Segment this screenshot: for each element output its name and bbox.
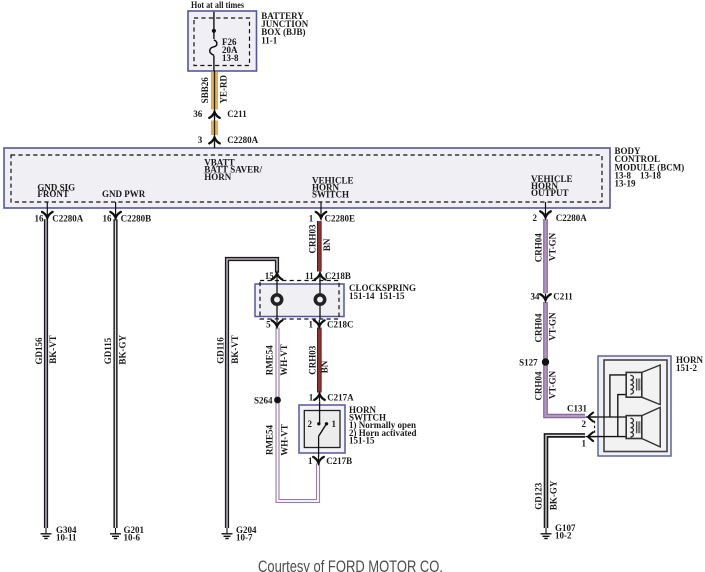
svg-text:YE-RD: YE-RD <box>219 75 229 104</box>
svg-text:GD116: GD116 <box>216 337 226 364</box>
svg-text:151-15: 151-15 <box>349 436 375 446</box>
svg-text:151-14 151-15: 151-14 151-15 <box>349 291 405 301</box>
svg-text:CRH03: CRH03 <box>307 345 317 374</box>
svg-text:13-19: 13-19 <box>615 179 636 189</box>
svg-text:2: 2 <box>582 419 587 429</box>
svg-text:3: 3 <box>198 135 203 145</box>
svg-text:WH-VT: WH-VT <box>280 424 290 456</box>
svg-text:BK-GY: BK-GY <box>117 335 127 365</box>
svg-text:BK-GY: BK-GY <box>548 480 558 510</box>
svg-text:16: 16 <box>103 214 113 224</box>
svg-text:1: 1 <box>309 214 314 224</box>
svg-text:34: 34 <box>531 292 541 302</box>
svg-text:GD123: GD123 <box>534 482 544 510</box>
svg-text:S264: S264 <box>254 395 273 405</box>
svg-text:BN: BN <box>322 238 332 251</box>
svg-text:C2280B: C2280B <box>121 214 152 224</box>
svg-text:CRH03: CRH03 <box>307 224 317 253</box>
svg-text:C2280E: C2280E <box>325 214 356 224</box>
svg-text:GD156: GD156 <box>34 337 44 365</box>
svg-text:S127: S127 <box>519 357 538 367</box>
svg-text:VT-GN: VT-GN <box>548 312 558 341</box>
svg-text:13-18: 13-18 <box>640 171 661 181</box>
svg-text:OUTPUT: OUTPUT <box>531 188 569 198</box>
svg-text:2: 2 <box>308 419 313 429</box>
svg-text:HORN: HORN <box>204 172 232 182</box>
svg-text:C2280A: C2280A <box>52 214 83 224</box>
svg-text:Courtesy of FORD MOTOR CO.: Courtesy of FORD MOTOR CO. <box>258 558 443 572</box>
svg-text:1: 1 <box>308 456 313 466</box>
svg-text:11-1: 11-1 <box>261 35 278 45</box>
svg-text:13-8: 13-8 <box>222 53 239 63</box>
svg-text:36: 36 <box>193 109 203 119</box>
svg-text:151-2: 151-2 <box>676 363 697 373</box>
svg-text:BK-VT: BK-VT <box>230 335 240 364</box>
svg-text:FRONT: FRONT <box>37 189 69 199</box>
svg-text:WH-VT: WH-VT <box>279 344 289 376</box>
svg-text:RME54: RME54 <box>265 345 275 375</box>
svg-text:1: 1 <box>332 419 337 429</box>
svg-text:1: 1 <box>309 320 314 330</box>
svg-text:C217B: C217B <box>326 456 352 466</box>
svg-text:10-11: 10-11 <box>56 533 77 543</box>
svg-text:Hot at all times: Hot at all times <box>191 0 244 10</box>
svg-text:10-7: 10-7 <box>236 533 253 543</box>
svg-text:CRH04: CRH04 <box>534 371 544 400</box>
svg-text:GD115: GD115 <box>103 337 113 364</box>
svg-text:C211: C211 <box>553 292 573 302</box>
svg-text:16: 16 <box>35 214 45 224</box>
svg-text:BN: BN <box>319 360 329 373</box>
svg-text:C211: C211 <box>227 109 247 119</box>
svg-text:VT-GN: VT-GN <box>548 370 558 399</box>
svg-text:SWITCH: SWITCH <box>312 190 349 200</box>
svg-text:11: 11 <box>305 271 314 281</box>
svg-text:RME54: RME54 <box>265 425 275 455</box>
svg-text:2: 2 <box>533 213 538 223</box>
svg-text:10-2: 10-2 <box>555 531 572 541</box>
svg-text:5: 5 <box>266 320 271 330</box>
svg-text:15: 15 <box>265 271 275 281</box>
svg-text:C2280A: C2280A <box>227 135 258 145</box>
svg-text:VT-GN: VT-GN <box>548 232 558 261</box>
svg-text:C131: C131 <box>567 404 587 414</box>
svg-text:C218B: C218B <box>325 271 351 281</box>
svg-text:1: 1 <box>309 393 314 403</box>
svg-text:CRH04: CRH04 <box>534 313 544 342</box>
svg-text:BK-VT: BK-VT <box>48 335 58 364</box>
svg-text:SBB26: SBB26 <box>200 77 210 104</box>
svg-text:CRH04: CRH04 <box>533 233 543 262</box>
svg-text:C218C: C218C <box>327 320 354 330</box>
svg-text:1: 1 <box>582 439 587 449</box>
svg-text:10-6: 10-6 <box>124 533 141 543</box>
svg-text:GND PWR: GND PWR <box>102 189 146 199</box>
svg-text:C2280A: C2280A <box>556 213 587 223</box>
svg-text:C217A: C217A <box>327 393 354 403</box>
